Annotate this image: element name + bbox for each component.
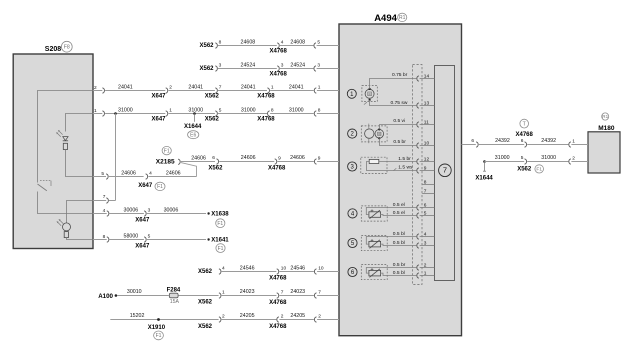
wire 0.5vi comp2 to pin11	[380, 125, 417, 130]
wire 24041 X647-X562	[169, 90, 215, 92]
connector X4768 pin 9	[275, 159, 277, 164]
connector A494 pin 5	[314, 43, 316, 48]
svg-text:9: 9	[424, 165, 427, 171]
svg-text:13: 13	[424, 100, 430, 106]
svg-text:F1: F1	[157, 184, 163, 190]
connector M180 pin 1	[569, 142, 571, 147]
svg-text:7: 7	[281, 290, 284, 296]
connector X562 pin 8	[215, 43, 217, 48]
S208 internal wire pin2 to switch	[38, 91, 94, 183]
component dashed box 6	[361, 265, 387, 280]
svg-text:24041: 24041	[241, 84, 256, 90]
svg-text:10: 10	[281, 266, 287, 272]
svg-text:X4768: X4768	[257, 117, 275, 123]
temperature sensor symbol component 5	[369, 241, 381, 247]
connector X4768 pin 7	[277, 293, 279, 298]
connector A494 pin 7	[314, 293, 316, 298]
pin 13 of internal connector	[420, 105, 435, 107]
svg-text:7: 7	[219, 85, 222, 91]
svg-text:1.5 ws: 1.5 ws	[398, 164, 413, 170]
svg-text:24392: 24392	[495, 138, 510, 144]
wire X2185 branch to pin5 row	[181, 163, 197, 177]
svg-text:31000: 31000	[118, 107, 133, 113]
connector X562 pin 7	[215, 88, 217, 93]
svg-text:31000: 31000	[188, 107, 203, 113]
wire 24023 X562-X4768	[222, 295, 277, 297]
connector X4768 pin 8	[268, 111, 270, 116]
svg-text:X562: X562	[205, 94, 220, 100]
svg-text:0.5 br: 0.5 br	[393, 262, 406, 268]
svg-text:24608: 24608	[241, 39, 256, 45]
connector A494 pin 2	[314, 317, 316, 322]
wire 0.5 bl comp5 to pin3	[381, 244, 417, 245]
svg-text:X4768: X4768	[268, 166, 286, 172]
svg-text:X4768: X4768	[269, 300, 287, 306]
switch contact in S208	[38, 184, 47, 191]
twist mark comp1	[364, 102, 367, 104]
connector X4768 pin 3	[277, 66, 279, 71]
svg-text:1: 1	[222, 290, 225, 296]
connector X562 pin 2	[219, 317, 221, 322]
svg-text:24524: 24524	[290, 62, 305, 68]
connector X562 pin 3	[215, 66, 217, 71]
pin 4 of internal connector	[420, 236, 435, 238]
svg-text:3: 3	[148, 208, 151, 214]
svg-text:X4768: X4768	[257, 94, 275, 100]
svg-text:X562: X562	[198, 269, 213, 275]
svg-text:31000: 31000	[289, 107, 304, 113]
LED arrows in S208	[58, 130, 62, 134]
component box M180	[588, 132, 620, 173]
svg-text:X2185: X2185	[156, 158, 175, 165]
junction dots component 2	[378, 128, 380, 130]
svg-text:1: 1	[318, 85, 321, 91]
wire S208-X647 row4	[93, 113, 102, 115]
svg-text:X647: X647	[152, 117, 167, 123]
svg-text:F1: F1	[164, 148, 170, 154]
wire into M180 pin1	[571, 144, 588, 146]
svg-text:X562: X562	[198, 300, 213, 306]
svg-text:F1: F1	[218, 246, 224, 252]
wire S208 pin7 to vertical	[93, 200, 106, 202]
wire into A494 pin10	[317, 271, 339, 273]
connector A494 pin 8	[314, 111, 316, 116]
svg-text:2: 2	[169, 85, 172, 91]
svg-text:24041: 24041	[188, 84, 203, 90]
wire 24041 X562-X4768	[218, 90, 267, 92]
svg-text:2: 2	[572, 155, 575, 161]
svg-text:X562: X562	[517, 166, 532, 172]
circle T	[520, 119, 529, 128]
svg-text:10: 10	[424, 140, 430, 146]
svg-text:R1: R1	[602, 114, 608, 119]
svg-text:0.75 br: 0.75 br	[392, 72, 408, 78]
svg-text:X562: X562	[200, 66, 215, 72]
wire 24546 X562-X4768	[222, 271, 277, 273]
motor symbol component 2	[375, 130, 384, 139]
wire 0.75sw comp1 to pin13	[370, 100, 417, 106]
svg-text:F8: F8	[64, 44, 70, 50]
wire 24524 X4768-A494	[280, 68, 313, 70]
svg-text:X562: X562	[208, 166, 223, 172]
svg-text:7: 7	[443, 165, 447, 174]
svg-text:4: 4	[281, 40, 284, 46]
svg-text:24023: 24023	[240, 289, 255, 295]
connector M180 pin 2	[569, 159, 571, 164]
wire into A494 pin8	[317, 113, 339, 115]
internal connector dashed boundary	[413, 65, 423, 285]
circle 1 (component ref)	[347, 89, 356, 98]
svg-text:1: 1	[271, 85, 274, 91]
connector S208 pin5	[106, 174, 108, 179]
wire 24392 X4768-M180	[527, 144, 568, 146]
svg-text:30006: 30006	[164, 208, 179, 214]
svg-text:8: 8	[424, 179, 427, 185]
svg-text:24606: 24606	[191, 155, 206, 161]
svg-text:15202: 15202	[130, 313, 145, 319]
svg-text:X4768: X4768	[516, 132, 534, 138]
svg-text:F1: F1	[156, 333, 162, 339]
svg-text:9: 9	[318, 155, 321, 161]
svg-text:3: 3	[424, 240, 427, 246]
svg-text:7: 7	[318, 290, 321, 296]
connector X647 pin 5	[144, 237, 146, 242]
svg-text:4: 4	[149, 171, 152, 177]
svg-text:58000: 58000	[124, 234, 139, 240]
svg-text:X562: X562	[198, 324, 213, 330]
diode D in S208	[63, 137, 68, 141]
ground reference node X1644 (right)	[483, 160, 486, 163]
svg-text:2: 2	[222, 314, 225, 320]
wire S208 pin5 to X647	[93, 176, 106, 178]
wire 24606 X562-X4768	[219, 161, 274, 163]
pin 12 of internal connector	[420, 161, 435, 163]
svg-text:24524: 24524	[241, 62, 256, 68]
svg-text:0.5 bl: 0.5 bl	[393, 231, 405, 237]
pin 11 of internal connector	[420, 124, 435, 126]
wire S208-X647 row3	[93, 90, 102, 92]
circle 5 (component ref)	[348, 238, 357, 247]
svg-text:5: 5	[424, 210, 427, 216]
svg-text:X562: X562	[205, 117, 220, 123]
temperature sensor symbol component 6	[369, 270, 381, 276]
connector A494 pin6	[476, 142, 478, 147]
fuse F284 15A	[169, 293, 178, 298]
connector X2185	[178, 159, 180, 164]
wire 0.5 el comp4 to pin5	[381, 215, 417, 216]
S208 internal wire pin1 to LED	[66, 114, 94, 132]
motor symbol component 1	[365, 89, 374, 98]
svg-text:X562: X562	[200, 43, 215, 49]
wire 31000 X4768-A494	[270, 113, 314, 115]
connector X4768 pin 4	[277, 43, 279, 48]
pin 7 of internal connector	[422, 193, 434, 195]
resistor in S208 LED branch	[63, 143, 67, 149]
connector X4768 pin 2	[277, 317, 279, 322]
node A100	[115, 294, 118, 297]
wire X647 to X1641	[147, 239, 206, 241]
lamp arrows in S208	[59, 219, 63, 223]
wire 0.5 br comp6 to pin2	[366, 268, 416, 274]
wire into A494 pin3	[317, 68, 339, 70]
svg-text:2: 2	[281, 314, 284, 320]
connector A494 pin 1	[314, 88, 316, 93]
svg-text:7: 7	[424, 188, 427, 194]
component dashed box 4	[361, 206, 387, 221]
svg-text:24041: 24041	[289, 84, 304, 90]
wire A494 pin6 out	[462, 144, 476, 146]
wire S208 pin4 to X647	[93, 213, 107, 215]
svg-text:E6: E6	[190, 132, 196, 138]
svg-text:24546: 24546	[240, 265, 255, 271]
circle F1 (X2185)	[162, 146, 171, 154]
circle 7 (pin bar)	[439, 164, 452, 177]
connector X562 pin 4	[219, 269, 221, 274]
wire S208 pin8 to X647	[93, 239, 107, 241]
component M dashed box 1	[362, 86, 377, 102]
wire 0.5 bl comp5 to pin4	[366, 237, 416, 245]
svg-text:A100: A100	[98, 293, 113, 300]
svg-text:1.5 br: 1.5 br	[398, 156, 411, 162]
svg-text:F1: F1	[217, 221, 223, 227]
component box S208	[13, 54, 93, 249]
S208 internal wire switch to pin4 row	[38, 192, 94, 214]
node X1641	[207, 238, 209, 240]
wire into A494 pin7	[317, 295, 339, 297]
svg-text:1: 1	[169, 108, 172, 114]
svg-text:24041: 24041	[118, 84, 133, 90]
wire 30006 X647 to X1638	[147, 213, 206, 215]
pin 5 of internal connector	[420, 215, 435, 217]
svg-text:X647: X647	[152, 94, 167, 100]
component dashed box 2	[361, 126, 387, 142]
svg-text:9: 9	[278, 155, 281, 161]
svg-text:24606: 24606	[166, 171, 181, 177]
svg-text:6: 6	[521, 138, 524, 144]
connector X647 pin 4	[146, 174, 148, 179]
svg-text:24546: 24546	[290, 265, 305, 271]
svg-text:6: 6	[471, 138, 474, 144]
twist mark comp3	[394, 168, 397, 171]
svg-text:M180: M180	[598, 125, 615, 132]
circle F1 (X1641)	[216, 244, 225, 253]
svg-text:4: 4	[424, 231, 427, 237]
connector X647 pin 2	[166, 88, 168, 93]
wire 15202 to X562	[110, 319, 218, 321]
svg-text:15A: 15A	[170, 299, 180, 305]
component box A494	[339, 24, 462, 336]
circle 2 (component ref)	[348, 129, 357, 138]
svg-text:F284: F284	[167, 287, 181, 293]
wire F284-X562	[178, 295, 218, 297]
svg-text:14: 14	[424, 73, 430, 79]
svg-text:31000: 31000	[541, 155, 556, 161]
pump symbol component 2	[365, 129, 374, 138]
circle 3 (component ref)	[348, 162, 357, 171]
wire 24041 X4768-A494	[270, 90, 314, 92]
wire 24546 X4768-A494	[279, 271, 314, 273]
wire 31000 X647-X562	[169, 113, 215, 115]
svg-text:S208: S208	[45, 46, 61, 53]
svg-text:30010: 30010	[127, 289, 142, 295]
circle R1 (A494)	[398, 13, 407, 21]
wire into A494 pin2	[317, 319, 339, 321]
wire 24205 X562-X4768	[222, 319, 277, 321]
S208 internal wire resistor to pin8	[67, 238, 94, 240]
svg-text:3: 3	[281, 63, 284, 69]
svg-text:X647: X647	[135, 243, 150, 249]
svg-text:1: 1	[424, 270, 427, 276]
temperature sensor symbol component 4	[369, 212, 381, 218]
svg-text:A494: A494	[374, 13, 397, 24]
component dashed box 3	[361, 157, 387, 173]
svg-text:31000: 31000	[241, 107, 256, 113]
svg-text:5: 5	[317, 40, 320, 46]
connector X562 pin 5	[215, 111, 217, 116]
resistor in S208 lamp branch	[64, 232, 68, 238]
circle F1 (X562 right)	[535, 165, 544, 173]
wire 31000 X1644-X562	[485, 161, 525, 163]
svg-text:3: 3	[317, 63, 320, 69]
svg-text:24606: 24606	[290, 155, 305, 161]
svg-text:10: 10	[318, 266, 324, 272]
connector X4768 pin 1	[267, 88, 269, 93]
connector S208 pin8	[107, 237, 109, 242]
pin 3 of internal connector	[420, 245, 435, 247]
pin 6 of internal connector	[420, 207, 435, 209]
svg-text:R1: R1	[399, 15, 406, 21]
junction node row4 to pin7	[114, 112, 117, 115]
connector A494 pin 9	[314, 159, 316, 164]
svg-text:6: 6	[424, 202, 427, 208]
circle 4 (component ref)	[348, 209, 357, 218]
circle F1 (X1638)	[216, 219, 225, 228]
svg-text:12: 12	[424, 156, 430, 162]
svg-text:X4768: X4768	[270, 72, 288, 78]
svg-text:0.5 bl: 0.5 bl	[393, 270, 405, 276]
internal pin bar	[435, 66, 455, 281]
wire 30010 A100-F284	[117, 295, 169, 297]
svg-text:24205: 24205	[290, 313, 305, 319]
svg-text:31000: 31000	[495, 155, 510, 161]
svg-text:T: T	[523, 121, 527, 127]
svg-text:0.5 el: 0.5 el	[393, 210, 405, 216]
wire 24606 X2185-X562	[181, 161, 215, 163]
connector X4768 pin 10	[277, 269, 279, 274]
pin 2 of internal connector	[420, 267, 435, 269]
resistor symbol component 3	[369, 159, 379, 163]
connector S208 pin2	[102, 88, 104, 93]
svg-text:2: 2	[424, 262, 427, 268]
wire 1.5ws comp3 to pin9	[367, 162, 417, 171]
svg-text:30006: 30006	[124, 208, 139, 214]
pin 14 of internal connector	[420, 78, 435, 80]
circle 6 (component ref)	[348, 267, 357, 276]
junction dots component 1	[369, 88, 371, 90]
svg-text:24606: 24606	[121, 171, 136, 177]
wire into A494 pin1	[317, 90, 339, 92]
wire 24606 X647 to junction	[148, 176, 196, 178]
svg-text:0.5 el: 0.5 el	[393, 202, 405, 208]
svg-text:X1910: X1910	[148, 325, 166, 331]
svg-text:3: 3	[219, 63, 222, 69]
wire 0.5 el comp4 to pin6	[366, 208, 416, 215]
connector X562 pin 1	[219, 293, 221, 298]
wire 0.5br comp2 to pin10	[380, 138, 417, 145]
pin 8 of internal connector	[422, 184, 434, 186]
circle R1 (M180)	[602, 113, 609, 120]
wire 0.75br comp1 to pin14	[370, 79, 417, 89]
svg-text:24392: 24392	[541, 138, 556, 144]
svg-text:X1638: X1638	[211, 212, 229, 218]
svg-text:8: 8	[271, 108, 274, 114]
wire 24606 X4768-A494	[277, 161, 314, 163]
svg-text:0.5 vi: 0.5 vi	[393, 118, 405, 124]
circle E6	[188, 131, 199, 139]
wire into M180 pin2	[571, 161, 588, 163]
wire into A494 pin5	[317, 45, 339, 47]
wire 24392 A494-X4768	[479, 144, 524, 146]
svg-text:0.5 br: 0.5 br	[393, 139, 406, 145]
svg-text:5: 5	[521, 155, 524, 161]
svg-text:2: 2	[318, 314, 321, 320]
svg-text:6: 6	[212, 155, 215, 161]
svg-text:4: 4	[222, 266, 225, 272]
connector A494 pin 10	[314, 269, 316, 274]
wire 31000 X562-M180	[527, 161, 568, 163]
ground reference node X1644 (left)	[193, 112, 196, 115]
svg-text:5: 5	[148, 234, 151, 240]
wire into A494 pin9	[317, 161, 339, 163]
connector A494 pin 3	[314, 66, 316, 71]
pin 9 of internal connector	[420, 170, 435, 172]
wire 0.5 bl comp6 to pin1	[381, 273, 417, 275]
node X1638	[207, 212, 209, 214]
svg-text:24205: 24205	[240, 313, 255, 319]
wire 24205 X4768-A494	[279, 319, 314, 321]
svg-text:X647: X647	[138, 183, 153, 189]
svg-text:5: 5	[219, 108, 222, 114]
svg-text:8: 8	[318, 108, 321, 114]
circle F1 (X647 pin5row)	[155, 182, 165, 190]
vertical wire pin7 net	[115, 114, 117, 201]
svg-text:F1: F1	[536, 167, 542, 173]
svg-text:X4768: X4768	[269, 324, 287, 330]
pin 1 of internal connector	[420, 275, 435, 277]
svg-text:24606: 24606	[241, 155, 256, 161]
connector X647 pin 3	[144, 211, 146, 216]
svg-text:7: 7	[103, 194, 106, 200]
node X1910	[157, 318, 160, 321]
svg-text:X4768: X4768	[270, 49, 288, 55]
svg-text:X4768: X4768	[269, 276, 287, 282]
S208 internal wire resistor to pin5	[66, 150, 94, 177]
svg-text:24608: 24608	[290, 39, 305, 45]
wire 24608 X562-X4768	[218, 45, 277, 47]
svg-text:X1644: X1644	[184, 124, 202, 130]
svg-text:8: 8	[219, 40, 222, 46]
svg-text:0.5 bl: 0.5 bl	[393, 240, 405, 246]
connector S208 pin4	[107, 211, 109, 216]
circle F8	[61, 41, 72, 52]
pin 10 of internal connector	[420, 145, 435, 147]
connector X647 pin 1	[166, 111, 168, 116]
svg-text:24023: 24023	[290, 289, 305, 295]
wire 31000 X562-X4768	[218, 113, 267, 115]
wire 24524 X562-X4768	[218, 68, 277, 70]
svg-text:11: 11	[424, 119, 429, 125]
lamp in S208	[63, 223, 71, 231]
